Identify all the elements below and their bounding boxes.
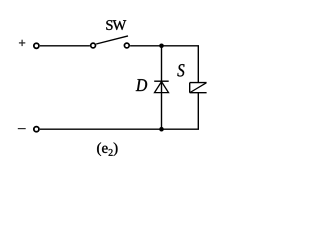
wire: top-left terminal to switch: [40, 45, 90, 47]
switch SW right contact circle: [124, 43, 129, 48]
wire: S branch vertical upper: [197, 46, 199, 83]
wire: switch to top-right corner: [130, 45, 199, 47]
label S: [177, 64, 184, 76]
switch SW lever: [96, 36, 128, 44]
wire: bottom rail: [40, 128, 199, 130]
label D: [136, 79, 147, 91]
diode D (triangle, anode below pointing up): [155, 82, 169, 93]
caption (e2): [97, 142, 117, 156]
terminal circle bottom-left: [34, 127, 39, 132]
switch SW left contact circle: [91, 43, 96, 48]
label SW: [106, 20, 126, 30]
wire: diode branch vertical: [161, 46, 163, 129]
switch device S (diagonal): [190, 83, 206, 93]
switch device S (left edge): [189, 83, 191, 93]
diode D (cathode bar): [154, 80, 169, 82]
switch device S (bottom bar): [190, 92, 207, 94]
switch device S (top bar): [190, 82, 207, 84]
junction dot top (node): [159, 44, 164, 49]
junction dot bottom (node): [159, 127, 164, 132]
wire: S branch vertical lower: [197, 93, 199, 130]
terminal circle top-left: [34, 43, 39, 48]
label + (positive terminal): [19, 40, 25, 46]
label - (negative terminal): [18, 128, 26, 130]
